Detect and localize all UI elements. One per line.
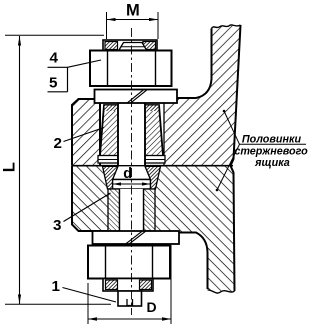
svg-text:1: 1	[52, 278, 61, 295]
svg-text:4: 4	[50, 50, 59, 67]
svg-text:стержневого: стержневого	[234, 145, 308, 157]
svg-text:M: M	[126, 2, 140, 20]
svg-text:3: 3	[53, 217, 61, 234]
svg-text:D: D	[147, 299, 157, 315]
svg-text:ящика: ящика	[254, 157, 290, 169]
svg-text:Половинки: Половинки	[242, 134, 302, 146]
svg-text:2: 2	[54, 135, 62, 152]
svg-text:d: d	[123, 166, 132, 182]
svg-text:L: L	[1, 162, 19, 172]
svg-text:5: 5	[49, 75, 58, 92]
